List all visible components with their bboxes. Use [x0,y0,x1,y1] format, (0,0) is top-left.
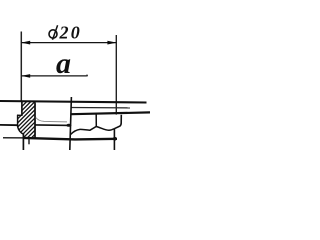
left horizontal line [0,124,18,126]
bottom line [24,138,117,140]
bottom line left faint [3,137,24,139]
arrowhead right [107,41,116,45]
mid lower line [35,124,71,127]
extension line left [20,32,22,102]
end tick a [86,75,88,77]
flange left edge [17,115,19,127]
hub hatched section [10,56,60,168]
extension line right [115,35,117,115]
svg-text:a: a [56,47,71,80]
web left vertical [22,134,24,151]
arrowhead a left [21,74,30,78]
bottom junction bump [113,137,117,141]
mid faint line [36,118,67,122]
dimension line a [21,75,87,77]
diameter symbol phi [49,25,58,40]
arrowhead left [21,41,30,45]
svg-text:20: 20 [59,23,82,43]
top surface line [0,101,147,103]
web right stub [28,139,30,144]
junction blob [66,124,71,127]
hub left edge upper [21,102,23,115]
lower right thick line [71,112,150,114]
hub right edge [34,103,36,139]
head wavy profile [70,127,114,135]
flange step [17,114,23,116]
flange fillet [18,126,24,134]
dimension line diameter 20 [21,42,116,44]
head right chamfer [114,115,121,129]
vertical under head [113,129,115,150]
vertical stub under top [95,115,97,127]
vertical body left edge [70,97,72,150]
upper right thin line [71,107,130,109]
